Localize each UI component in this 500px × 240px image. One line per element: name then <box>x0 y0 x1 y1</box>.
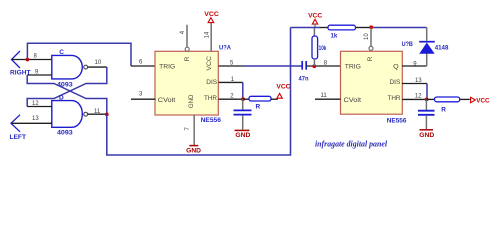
wire DIS to THR (U?B) <box>426 84 428 100</box>
svg-text:10k: 10k <box>319 45 327 52</box>
U?A pin 4 bubble <box>185 47 189 51</box>
svg-text:Q: Q <box>393 64 399 71</box>
svg-text:LEFT: LEFT <box>10 134 27 141</box>
resistor 1k <box>320 25 371 30</box>
svg-text:VCC: VCC <box>204 11 219 18</box>
resistor R at U?A THR <box>243 96 278 101</box>
wire pin9 <box>27 74 52 76</box>
wire pin9 to diode <box>426 54 428 67</box>
wire pin11 output <box>88 113 107 115</box>
svg-text:R: R <box>184 56 191 61</box>
svg-text:DIS: DIS <box>390 79 401 86</box>
svg-text:VCC: VCC <box>476 97 490 104</box>
resistor 10k <box>312 28 318 67</box>
svg-text:GND: GND <box>186 147 201 154</box>
resistor R at U?B THR <box>427 97 470 102</box>
port LEFT arrow <box>11 115 20 132</box>
svg-text:VCC: VCC <box>276 84 291 91</box>
capacitor at U?B THR <box>418 99 435 129</box>
svg-text:R: R <box>256 104 261 111</box>
svg-text:THR: THR <box>388 95 401 102</box>
svg-text:D: D <box>59 94 64 101</box>
wire pin8 <box>12 59 53 61</box>
U?B pin 12 stub <box>402 98 427 100</box>
svg-text:14: 14 <box>205 31 211 38</box>
U?B pin 11 stub <box>315 98 341 100</box>
U?A pin 2 stub <box>219 98 244 100</box>
wire cross-couple out11 to in9 <box>27 75 107 114</box>
junction node R pin U?B <box>369 25 373 29</box>
svg-text:12: 12 <box>415 94 422 100</box>
svg-text:THR: THR <box>204 95 217 102</box>
wire VCC rail top <box>291 27 321 29</box>
svg-text:13: 13 <box>415 78 422 84</box>
wire 47n to TRIG node <box>306 65 340 67</box>
svg-text:TRIG: TRIG <box>159 64 175 71</box>
U?A pin 1 stub <box>219 81 243 83</box>
svg-text:4148: 4148 <box>435 45 449 52</box>
svg-text:TRIG: TRIG <box>345 64 361 71</box>
svg-text:NE556: NE556 <box>387 117 407 124</box>
svg-text:R: R <box>367 56 374 61</box>
svg-text:10: 10 <box>364 33 370 40</box>
port RIGHT arrow <box>12 51 21 68</box>
U?A pin 5 stub <box>219 65 244 67</box>
capacitor at U?A THR <box>234 99 252 129</box>
junction node U?B TRIG <box>312 64 316 68</box>
svg-text:GND: GND <box>419 132 434 139</box>
svg-text:4093: 4093 <box>57 82 73 89</box>
wire DIS to THR <box>242 82 244 99</box>
junction node pin11 <box>105 113 109 117</box>
wire pin11 node to bottom rail to VCC rail <box>107 28 291 156</box>
U?A pin 4 stub <box>186 25 188 48</box>
power port VCC right of R (U?B) <box>471 97 490 104</box>
svg-text:U?A: U?A <box>219 44 231 51</box>
svg-text:NE556: NE556 <box>201 117 222 124</box>
wire 1k to diode <box>371 27 427 29</box>
svg-text:U?B: U?B <box>402 41 414 48</box>
svg-text:R: R <box>441 107 446 114</box>
wire pin10 output <box>88 66 107 68</box>
NAND gate C 4093 <box>52 55 88 79</box>
wire U?A out5 to 47n <box>243 65 302 67</box>
junction node U?A THR <box>241 97 245 101</box>
U?B pin 10 stub <box>370 28 372 47</box>
svg-text:12: 12 <box>32 101 39 107</box>
svg-text:CVolt: CVolt <box>158 97 176 104</box>
U?B pin 10 bubble <box>369 46 373 50</box>
svg-text:CVolt: CVolt <box>344 97 362 104</box>
power port VCC right of R (U?A) <box>276 84 291 99</box>
wire pin13 <box>11 122 52 124</box>
svg-text:GND: GND <box>188 94 195 108</box>
svg-text:1k: 1k <box>331 32 338 39</box>
svg-text:11: 11 <box>94 109 101 115</box>
svg-text:10: 10 <box>95 60 102 66</box>
capacitor 47n <box>302 61 306 70</box>
svg-text:4093: 4093 <box>57 130 73 137</box>
junction node RIGHT/pin8 <box>26 58 30 62</box>
op-amp U?A body (NE556 timer) <box>155 51 218 115</box>
power port VCC above 10k <box>308 13 323 28</box>
wire RIGHT node to TRIG rail <box>27 43 131 66</box>
svg-text:11: 11 <box>321 93 328 99</box>
diode 4148 <box>419 28 435 54</box>
svg-text:VCC: VCC <box>206 56 213 71</box>
U?B pin 13 stub <box>402 83 427 85</box>
svg-text:infragate digital panel: infragate digital panel <box>315 139 388 149</box>
U?A pin 14 stub <box>210 23 212 52</box>
U?A pin 3 stub <box>131 98 156 100</box>
svg-text:VCC: VCC <box>308 13 323 20</box>
wire cross-couple out10 to in12 <box>27 67 107 106</box>
svg-text:DIS: DIS <box>206 79 217 86</box>
op-amp U?B body (NE556 timer) <box>341 51 403 114</box>
ground GND below U?A THR cap <box>235 130 251 139</box>
svg-text:GND: GND <box>235 132 250 139</box>
ground GND below U?A pin7 <box>186 146 201 155</box>
svg-text:C: C <box>59 49 64 56</box>
junction node U?B THR <box>425 98 429 102</box>
svg-text:13: 13 <box>32 116 39 122</box>
svg-text:47n: 47n <box>299 75 309 82</box>
U?A pin 7 stub <box>193 115 195 145</box>
wire pin12 <box>27 106 52 108</box>
NAND gate D 4093 <box>52 101 88 128</box>
U?B pin 9 stub <box>402 65 427 67</box>
ground GND below U?B THR cap <box>419 130 434 139</box>
power port VCC above U?A <box>204 11 219 23</box>
pin 6 wire <box>131 65 155 67</box>
